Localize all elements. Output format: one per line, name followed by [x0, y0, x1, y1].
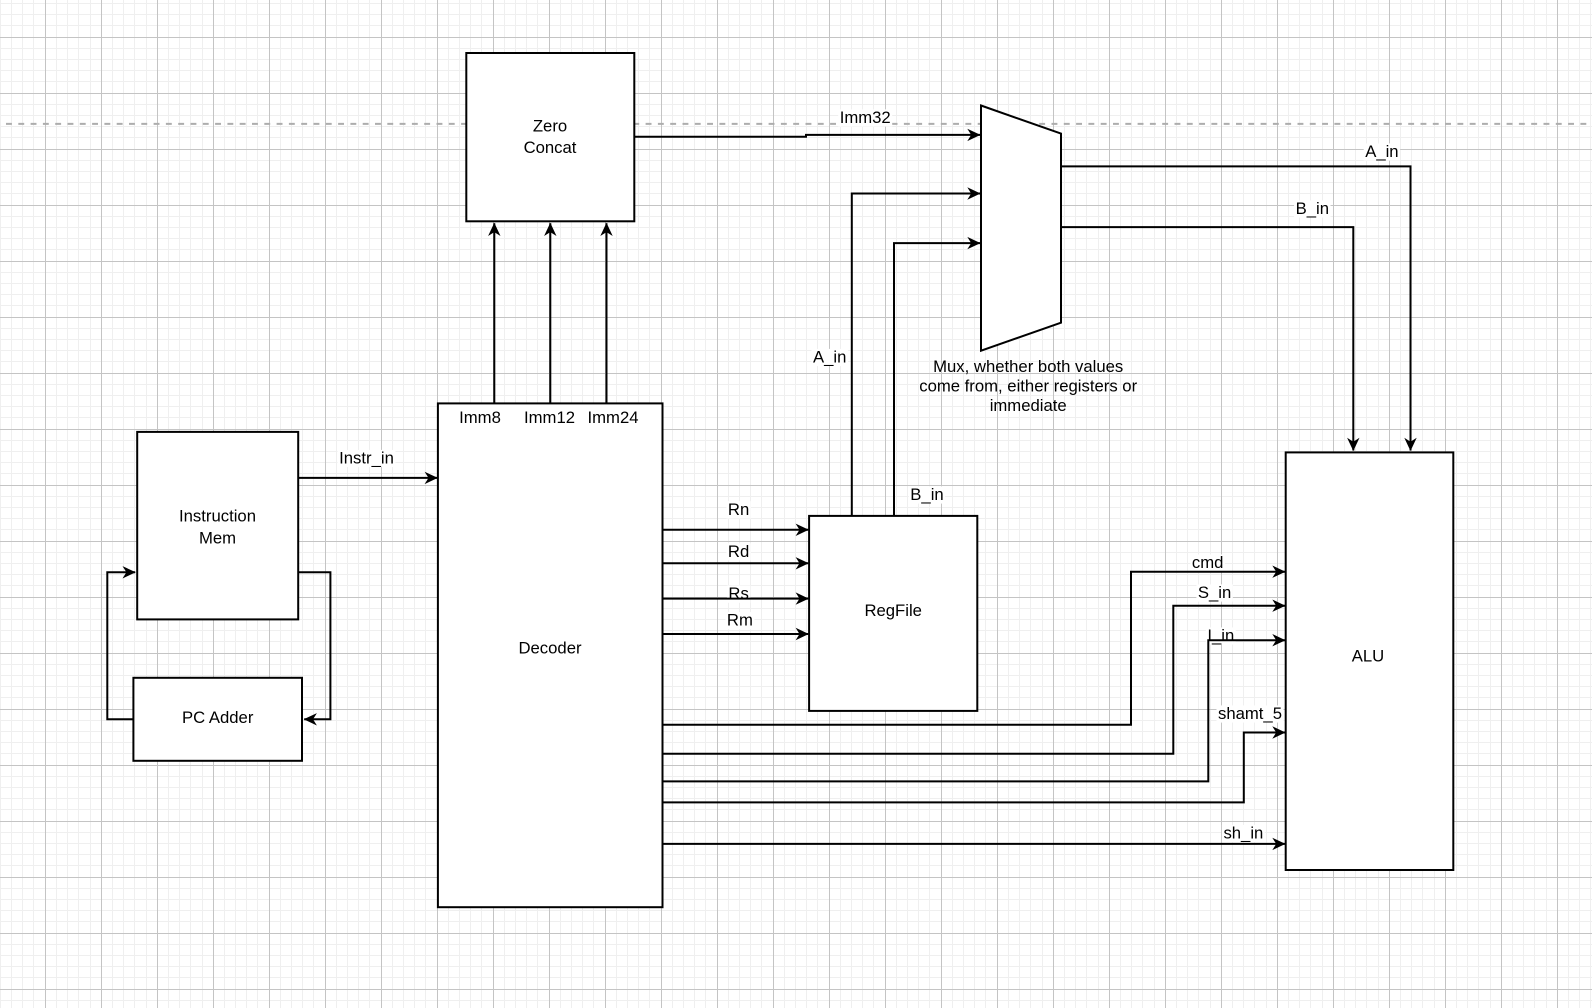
- wire Imm8 Decoder to Zero Concat: [493, 223, 495, 403]
- svg-text:Rd: Rd: [728, 542, 749, 561]
- wire Rn: [663, 529, 809, 531]
- svg-text:Zero: Zero: [533, 116, 567, 135]
- wire cmd: [663, 572, 1286, 725]
- block Zero Concat: [466, 53, 634, 221]
- svg-text:Instr_in: Instr_in: [339, 449, 394, 468]
- wire Imm12 Decoder to Zero Concat: [549, 223, 551, 403]
- block RegFile: [809, 516, 977, 711]
- svg-text:Imm12: Imm12: [524, 408, 575, 427]
- wire Instr_in from Instruction Mem to Decoder: [298, 477, 437, 479]
- svg-text:A_in: A_in: [1365, 142, 1398, 161]
- svg-text:Imm8: Imm8: [459, 408, 501, 427]
- svg-text:sh_in: sh_in: [1223, 824, 1263, 843]
- svg-text:Concat: Concat: [524, 138, 577, 157]
- svg-text:PC Adder: PC Adder: [182, 708, 254, 727]
- svg-text:B_in: B_in: [1296, 199, 1329, 218]
- svg-text:Imm32: Imm32: [840, 108, 891, 127]
- wire S_in: [663, 606, 1286, 754]
- svg-text:Rs: Rs: [728, 584, 748, 603]
- svg-text:Rn: Rn: [728, 500, 749, 519]
- svg-text:immediate: immediate: [990, 396, 1067, 415]
- wire I_in: [663, 640, 1286, 781]
- svg-text:Instruction: Instruction: [179, 506, 256, 525]
- svg-text:Imm24: Imm24: [588, 408, 639, 427]
- block Instruction Mem: [137, 432, 298, 620]
- wire A_in from RegFile top to Mux: [852, 194, 980, 516]
- block PC Adder: [133, 678, 302, 761]
- block Mux trapezoid: [981, 106, 1061, 351]
- block ALU: [1286, 452, 1454, 870]
- wire B_in from RegFile top to Mux: [894, 243, 980, 515]
- svg-text:Decoder: Decoder: [518, 639, 582, 658]
- svg-text:I_in: I_in: [1207, 626, 1234, 645]
- wire shamt_5: [663, 733, 1286, 803]
- wire Mux output B_in to ALU: [1061, 227, 1353, 450]
- svg-text:cmd: cmd: [1192, 553, 1224, 572]
- wire Mux output A_in to ALU: [1061, 166, 1410, 450]
- wire PC loop left into Instruction Mem: [107, 572, 135, 719]
- svg-text:Mux, whether both values: Mux, whether both values: [933, 357, 1123, 376]
- svg-text:B_in: B_in: [910, 485, 943, 504]
- svg-text:Rm: Rm: [727, 611, 753, 630]
- wire Rs: [663, 598, 809, 600]
- page-break dashed line: [0, 123, 1592, 125]
- svg-text:shamt_5: shamt_5: [1218, 704, 1282, 723]
- wire Imm32 from Zero Concat to Mux: [634, 135, 980, 137]
- svg-text:come from, either registers or: come from, either registers or: [919, 377, 1137, 396]
- svg-text:S_in: S_in: [1198, 583, 1231, 602]
- wire sh_in: [663, 843, 1286, 845]
- svg-text:A_in: A_in: [813, 348, 846, 367]
- block Decoder: [438, 403, 663, 907]
- wire Rd: [663, 562, 809, 564]
- wire Imm24 Decoder to Zero Concat: [606, 223, 608, 403]
- svg-text:ALU: ALU: [1352, 646, 1384, 665]
- wire Rm: [663, 633, 809, 635]
- svg-text:RegFile: RegFile: [864, 601, 922, 620]
- wire PC loop right into PC Adder: [298, 572, 330, 719]
- wire label backgrounds: [338, 109, 1401, 842]
- svg-text:Mem: Mem: [199, 529, 236, 548]
